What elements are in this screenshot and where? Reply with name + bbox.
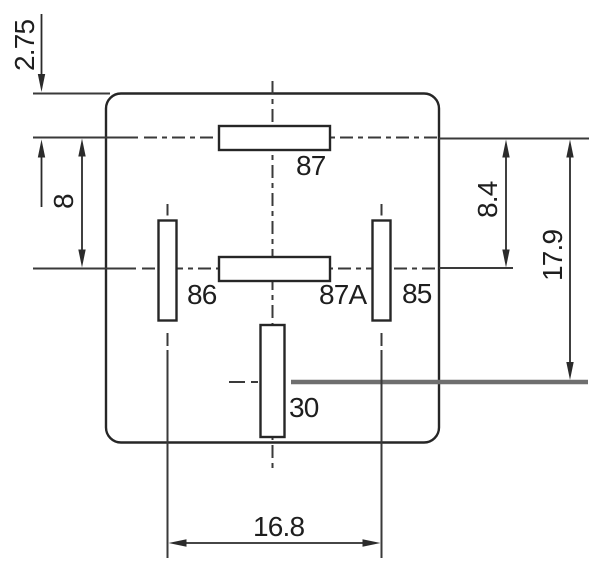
wire pin30 thick extension line xyxy=(291,380,588,384)
svg-text:87A: 87A xyxy=(319,279,368,310)
dimension 2.75 xyxy=(38,14,45,207)
pin 86 tick above xyxy=(167,204,169,216)
pin 86 xyxy=(159,221,177,321)
svg-text:2.75: 2.75 xyxy=(9,19,40,71)
node centerline 87 horizontal xyxy=(33,138,589,139)
pin 85 extension below xyxy=(381,333,383,558)
svg-text:8: 8 xyxy=(48,194,79,209)
svg-text:30: 30 xyxy=(289,392,319,423)
dimension 16.8 xyxy=(169,539,381,546)
svg-text:86: 86 xyxy=(187,279,217,310)
dimension 17.9 xyxy=(566,140,573,381)
node vertical centerline xyxy=(272,81,274,470)
wire top edge extension xyxy=(33,93,110,95)
svg-text:8.4: 8.4 xyxy=(472,181,503,218)
svg-text:85: 85 xyxy=(402,278,432,309)
pin 30 xyxy=(261,325,285,437)
pin 87A xyxy=(219,257,330,281)
dimension 8.4 xyxy=(502,140,509,268)
wire pin30 centerline left dashes xyxy=(229,381,258,383)
svg-text:87: 87 xyxy=(296,150,326,181)
node centerline 87A horizontal xyxy=(33,267,513,270)
relay body outline xyxy=(106,94,439,443)
pin 85 tick above xyxy=(381,204,383,216)
pin 86 extension below xyxy=(167,333,169,558)
dimension 8 xyxy=(78,139,85,268)
svg-text:16.8: 16.8 xyxy=(253,511,305,542)
pin 87 xyxy=(219,126,330,150)
pin 85 xyxy=(373,221,391,321)
svg-text:17.9: 17.9 xyxy=(537,229,568,281)
